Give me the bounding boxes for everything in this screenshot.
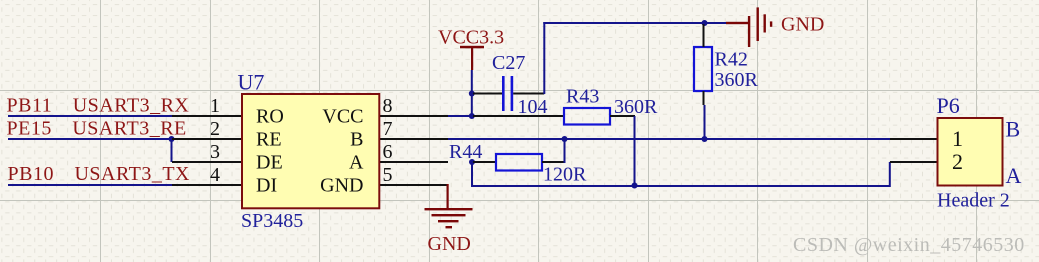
wire A down riser	[471, 162, 473, 187]
svg-text:360R: 360R	[715, 69, 759, 91]
P6 pin2 stub	[890, 161, 937, 163]
svg-text:GND: GND	[428, 233, 471, 255]
svg-text:A: A	[1006, 163, 1022, 188]
svg-text:6: 6	[383, 141, 393, 163]
svg-text:RO: RO	[256, 106, 284, 128]
wire net PB10	[8, 184, 172, 186]
wire pin8 to VCC node	[448, 115, 473, 117]
svg-text:B: B	[350, 129, 363, 151]
svg-text:RE: RE	[256, 129, 282, 151]
svg-text:4: 4	[210, 164, 220, 186]
pin 4 stub	[172, 184, 242, 186]
svg-text:DI: DI	[256, 175, 277, 197]
svg-text:C27: C27	[492, 52, 525, 74]
svg-text:2: 2	[210, 118, 220, 140]
op IC U7 pin 1 stub	[172, 115, 242, 117]
resistor R43 left lead	[473, 115, 564, 117]
svg-text:7: 7	[383, 118, 393, 140]
R44 body	[496, 154, 542, 171]
wire top GND rail	[543, 22, 705, 24]
svg-text:360R: 360R	[614, 96, 658, 118]
svg-text:GND: GND	[320, 175, 363, 197]
pin 6 stub	[379, 161, 448, 163]
R43 body	[564, 108, 610, 125]
svg-text:PB10 USART3_TX: PB10 USART3_TX	[8, 163, 191, 185]
wire net B	[448, 138, 890, 140]
C27 right lead	[513, 93, 544, 95]
VCC stem	[471, 47, 473, 70]
wire net PE15	[8, 138, 172, 140]
GND right bar2	[757, 7, 759, 41]
svg-text:CSDN @weixin_45746530: CSDN @weixin_45746530	[793, 234, 1025, 256]
GND bottom stem corner	[447, 184, 449, 209]
R44 right lead	[542, 161, 565, 163]
wire R43 down riser	[634, 116, 636, 186]
VCC bar	[460, 46, 484, 49]
svg-text:DE: DE	[256, 152, 283, 174]
svg-text:2: 2	[952, 149, 963, 174]
svg-text:P6: P6	[937, 93, 960, 118]
C27 left plate	[502, 76, 505, 111]
svg-text:8: 8	[383, 95, 393, 117]
svg-text:Header 2: Header 2	[937, 190, 1010, 212]
svg-text:SP3485: SP3485	[241, 210, 303, 232]
GND right bar4	[770, 21, 772, 26]
C27 right plate	[511, 76, 514, 111]
junction B/R44	[562, 136, 568, 142]
junction B/R42	[702, 136, 708, 142]
junction VCC/pin8	[469, 113, 475, 119]
svg-text:PB11 USART3_RX: PB11 USART3_RX	[7, 95, 190, 117]
GND right bar3	[764, 14, 766, 32]
GND bottom bar3	[438, 220, 459, 222]
svg-text:PE15 USART3_RE: PE15 USART3_RE	[7, 118, 187, 140]
pin 2 stub	[172, 138, 242, 140]
junction on RE wire	[169, 136, 175, 142]
pin 8 stub	[379, 115, 448, 117]
GND bottom bar1	[425, 208, 473, 210]
pin 5 stub	[379, 184, 448, 186]
resistor R44 left lead	[473, 161, 496, 163]
wire rail to GND symbol	[705, 22, 727, 24]
header P6 pin1 stub	[890, 138, 937, 140]
wire R44 up riser to B	[564, 139, 566, 163]
svg-text:104: 104	[518, 96, 548, 118]
R42 bottom lead	[703, 91, 705, 105]
pin 3 stub	[172, 161, 242, 163]
junction R43/A line	[632, 183, 638, 189]
svg-text:GND: GND	[781, 14, 824, 36]
svg-text:R44: R44	[449, 141, 482, 163]
svg-text:R43: R43	[566, 85, 599, 107]
svg-text:1: 1	[952, 126, 963, 151]
GND right bar1	[748, 16, 750, 47]
wire net PB11	[8, 115, 172, 117]
junction top rail / R42	[702, 20, 708, 26]
wire A up riser to P6 pin2	[889, 162, 891, 187]
IC U7 body	[242, 94, 379, 208]
svg-text:U7: U7	[238, 70, 265, 95]
R42 top lead	[703, 24, 705, 47]
svg-text:B: B	[1006, 117, 1021, 142]
svg-text:A: A	[349, 152, 364, 174]
svg-text:VCC: VCC	[322, 106, 363, 128]
GND right stem	[726, 22, 749, 24]
svg-text:R42: R42	[715, 49, 748, 71]
junction pin6/R44	[469, 159, 475, 165]
svg-text:3: 3	[210, 141, 220, 163]
junction VCC/C27	[469, 91, 475, 97]
wire cap up riser	[543, 22, 545, 94]
svg-text:VCC3.3: VCC3.3	[438, 27, 504, 49]
wire net A	[471, 185, 890, 187]
svg-text:5: 5	[383, 164, 393, 186]
resistor R42 body	[694, 47, 712, 91]
capacitor C27 left lead	[473, 93, 502, 95]
header P6 body	[938, 118, 1003, 186]
wire branch RE to pin3	[171, 139, 173, 162]
GND bottom bar2	[432, 214, 466, 216]
pin 7 stub	[379, 138, 448, 140]
R43 right lead	[610, 115, 635, 117]
wire VCC stem to pin8 row	[471, 70, 473, 116]
R42 bottom wire	[704, 105, 706, 139]
svg-text:120R: 120R	[543, 163, 587, 185]
svg-text:1: 1	[210, 95, 220, 117]
GND bottom bar4	[446, 226, 453, 228]
